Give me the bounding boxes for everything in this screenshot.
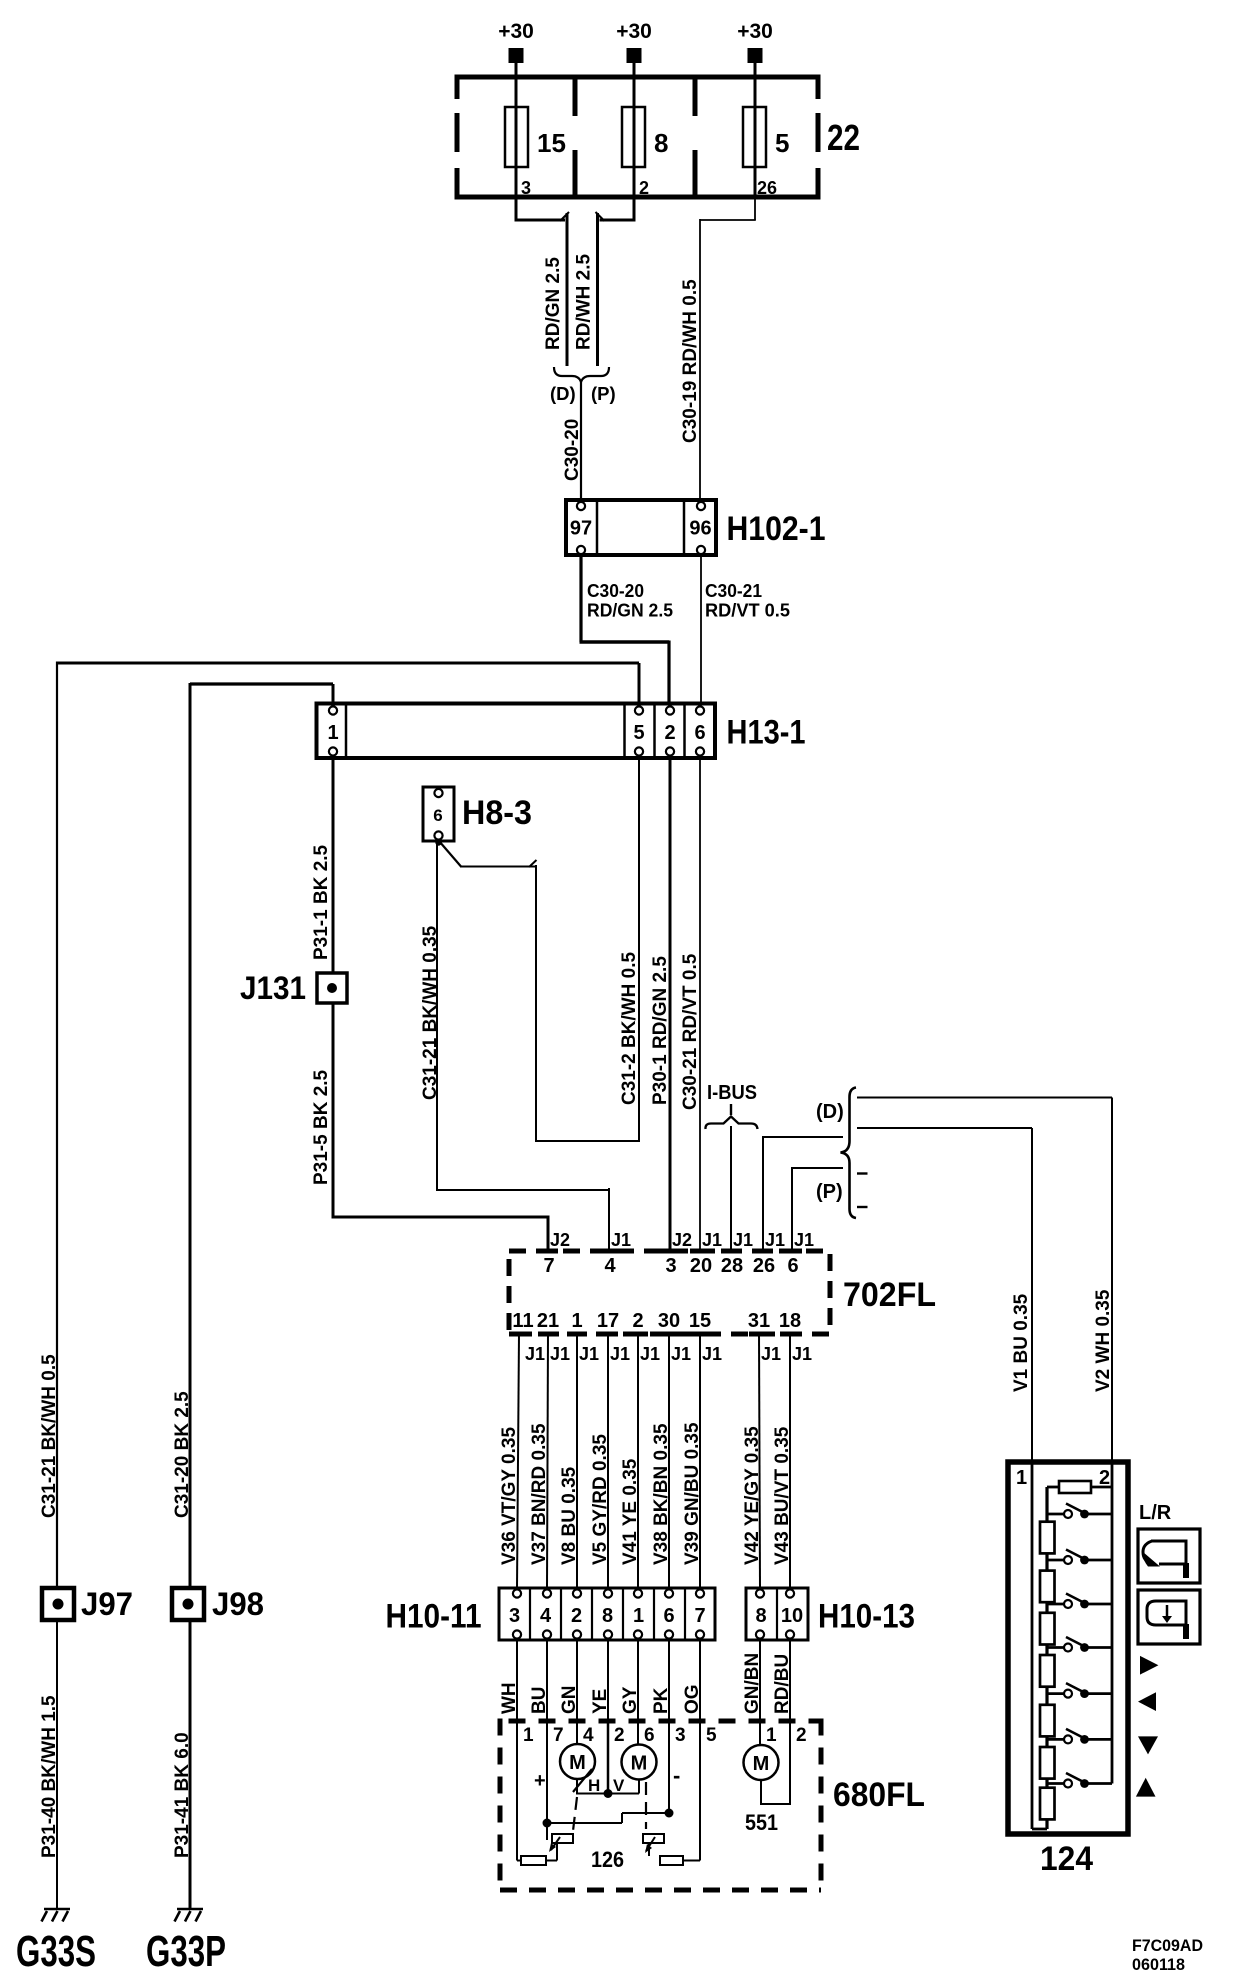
svg-text:PK: PK — [651, 1687, 672, 1714]
svg-text:C31-21 BK/WH 0.5: C31-21 BK/WH 0.5 — [39, 1354, 60, 1518]
wire fuse 8 feed — [633, 63, 636, 107]
svg-text:7: 7 — [694, 1605, 705, 1627]
I-BUS dashed leader — [730, 1104, 732, 1115]
svg-text:2: 2 — [632, 1310, 643, 1332]
I-BUS brace — [705, 1117, 757, 1130]
wire BU — [546, 1640, 548, 1721]
motor M (H) — [560, 1744, 595, 1779]
svg-text:26: 26 — [757, 178, 777, 198]
svg-text:15: 15 — [537, 128, 566, 158]
H10-11 pin 4 — [543, 1589, 551, 1597]
svg-text:YE: YE — [590, 1689, 611, 1714]
wire to motor H — [576, 1721, 578, 1744]
fuse 15 — [505, 107, 528, 167]
wire 702FL pin6 -> brace — [791, 1168, 793, 1251]
svg-text:8: 8 — [755, 1605, 766, 1627]
fuse 5 — [743, 107, 766, 167]
svg-text:GY: GY — [620, 1686, 641, 1714]
svg-text:15: 15 — [689, 1310, 711, 1332]
svg-text:J1: J1 — [702, 1344, 722, 1364]
svg-text:C30-20: C30-20 — [562, 419, 583, 481]
svg-text:1: 1 — [571, 1310, 582, 1332]
svg-text:P31-5 BK 2.5: P31-5 BK 2.5 — [311, 1069, 332, 1185]
wire I-BUS -> 702FL pin28 — [730, 1126, 732, 1251]
H10-11 pin 1 — [634, 1589, 642, 1597]
pot1 wiper box — [552, 1834, 573, 1843]
stub ticks — [857, 1172, 868, 1174]
triangle right — [1140, 1656, 1158, 1675]
wire motor551 loop — [760, 1780, 762, 1804]
chain resistor 4 — [1040, 1655, 1055, 1687]
wire YE to common — [607, 1721, 610, 1794]
svg-text:G33P: G33P — [146, 1927, 226, 1976]
wire V39 — [699, 1334, 701, 1588]
svg-text:V39 GN/BU 0.35: V39 GN/BU 0.35 — [682, 1422, 703, 1565]
fuse box divider 2 — [693, 77, 698, 197]
switch 2 — [1047, 1559, 1064, 1562]
switch unit 124 outline — [1008, 1462, 1128, 1834]
chain resistor 5 — [1040, 1705, 1055, 1737]
svg-text:(P): (P) — [591, 383, 616, 404]
svg-text:J1: J1 — [761, 1344, 781, 1364]
wire GN/BN — [759, 1640, 761, 1721]
svg-text:H10-13: H10-13 — [818, 1598, 915, 1636]
svg-text:V2 WH 0.35: V2 WH 0.35 — [1093, 1289, 1114, 1392]
svg-text:1: 1 — [327, 722, 338, 744]
wire through fuse 8 — [633, 107, 636, 197]
svg-text:H8-3: H8-3 — [462, 794, 532, 832]
switch 4 — [1047, 1646, 1064, 1649]
wire H8-3 -> 702FL pin4 — [436, 841, 438, 1190]
connector H10-11 — [499, 1588, 715, 1640]
svg-text:I-BUS: I-BUS — [707, 1082, 757, 1104]
svg-text:5: 5 — [775, 128, 789, 158]
svg-text:H: H — [588, 1776, 600, 1795]
svg-text:6: 6 — [433, 806, 442, 825]
wire motorH-motorV common — [576, 1779, 578, 1794]
svg-text:4: 4 — [604, 1255, 616, 1277]
svg-text:1: 1 — [766, 1725, 777, 1746]
svg-text:RD/WH 2.5: RD/WH 2.5 — [574, 254, 595, 351]
net BU-PK jog — [547, 1822, 622, 1824]
svg-text:J1: J1 — [702, 1230, 722, 1250]
wire PK to net — [668, 1721, 670, 1813]
svg-text:C30-19 RD/WH 0.5: C30-19 RD/WH 0.5 — [680, 279, 701, 443]
wire (D) -> V2 — [857, 1097, 1112, 1099]
702FL bottom pin stub x=548 — [538, 1332, 558, 1337]
svg-text:(P): (P) — [816, 1181, 843, 1203]
svg-text:J1: J1 — [733, 1230, 753, 1250]
svg-text:551: 551 — [745, 1810, 778, 1835]
wire WH — [516, 1640, 518, 1721]
wire fuse3->RD/GN — [515, 197, 518, 220]
svg-text:21: 21 — [537, 1310, 559, 1332]
wire node to J98 rail — [190, 682, 333, 685]
svg-text:V8 BU 0.35: V8 BU 0.35 — [559, 1466, 580, 1565]
svg-text:J1: J1 — [611, 1230, 631, 1250]
wire 702FL pin26 -> brace — [762, 1137, 764, 1251]
switch 7 — [1047, 1782, 1064, 1785]
svg-text:(D): (D) — [550, 383, 576, 404]
svg-text:J1: J1 — [765, 1230, 785, 1250]
motor V linkage dashes — [645, 1782, 647, 1829]
702FL bottom pin stub x=519 — [509, 1332, 529, 1337]
702FL top pin stub x=548 — [538, 1249, 558, 1254]
svg-text:J2: J2 — [550, 1230, 570, 1250]
wire through fuse 5 — [754, 107, 757, 197]
svg-text:J1: J1 — [525, 1344, 545, 1364]
svg-text:C30-21 RD/VT 0.5: C30-21 RD/VT 0.5 — [680, 953, 701, 1110]
wire V8 — [576, 1334, 578, 1588]
icon B lamp glyph — [1147, 1601, 1186, 1633]
svg-text:C31-2 BK/WH 0.5: C31-2 BK/WH 0.5 — [619, 951, 640, 1105]
702FL top pin stub x=731 — [721, 1249, 741, 1254]
pot2 wiper arrow — [646, 1837, 655, 1851]
wire PK — [668, 1640, 670, 1721]
merge tick — [560, 212, 569, 221]
702FL top pin stub x=763 — [753, 1249, 773, 1254]
svg-text:RD/GN 2.5: RD/GN 2.5 — [587, 601, 673, 621]
svg-text:+30: +30 — [616, 20, 652, 43]
svg-text:26: 26 — [753, 1255, 775, 1277]
svg-text:31: 31 — [748, 1310, 770, 1332]
connector H8-3 — [423, 787, 454, 841]
fuse 8 — [622, 107, 645, 167]
H10-13 pin 8 — [756, 1589, 764, 1597]
wire brace -> H102-1 pin97 — [580, 381, 582, 500]
svg-text:4: 4 — [583, 1725, 594, 1746]
svg-text:1: 1 — [523, 1725, 534, 1746]
wire OG to pot2 — [699, 1721, 701, 1861]
connector H102-1 — [566, 500, 716, 555]
svg-text:V38 BK/BN 0.35: V38 BK/BN 0.35 — [651, 1423, 672, 1565]
motor M (V) — [622, 1745, 657, 1780]
wire to motor 551 — [759, 1640, 761, 1745]
fuse box 22 outline — [455, 75, 821, 80]
wire OG — [699, 1640, 701, 1721]
svg-text:126: 126 — [591, 1847, 624, 1872]
svg-text:OG: OG — [682, 1684, 703, 1714]
svg-text:RD/GN 2.5: RD/GN 2.5 — [543, 257, 564, 350]
wire fuse 15 feed — [515, 63, 518, 107]
wire 97 -> H13-1 pin2 — [579, 555, 582, 642]
svg-text:P30-1 RD/GN 2.5: P30-1 RD/GN 2.5 — [650, 956, 671, 1105]
svg-text:060118: 060118 — [1132, 1955, 1185, 1974]
svg-text:5: 5 — [633, 722, 644, 744]
wire pot1 right leg — [546, 1860, 557, 1862]
wire J131 -> 702FL pin7 — [332, 1003, 335, 1217]
wire fuse 26 -> C30-19 — [754, 197, 756, 220]
icon A beam glyph — [1151, 1541, 1186, 1572]
ground symbol G33P — [177, 1908, 203, 1911]
wire 96 -> H13-1 pin6 — [700, 555, 702, 703]
svg-text:7: 7 — [543, 1255, 554, 1277]
svg-text:V41 YE 0.35: V41 YE 0.35 — [620, 1458, 641, 1565]
connector H10-13 — [746, 1588, 808, 1640]
brace (D)(P) under RD wires — [554, 367, 609, 382]
svg-text:680FL: 680FL — [833, 1776, 925, 1814]
svg-text:BU: BU — [529, 1687, 550, 1714]
svg-text:8: 8 — [602, 1605, 613, 1627]
svg-text:2: 2 — [571, 1605, 582, 1627]
svg-text:+30: +30 — [498, 20, 534, 43]
svg-text:124: 124 — [1040, 1840, 1093, 1878]
+30 terminal square — [627, 48, 642, 63]
svg-text:7: 7 — [553, 1725, 564, 1746]
svg-text:6: 6 — [787, 1255, 798, 1277]
H8-3 junction dot — [435, 839, 441, 845]
svg-text:22: 22 — [827, 117, 860, 158]
wire YE — [607, 1640, 609, 1721]
top resistor — [1047, 1486, 1059, 1489]
svg-text:30: 30 — [658, 1310, 680, 1332]
svg-text:2: 2 — [639, 178, 649, 198]
brace right (D)/(P) — [841, 1088, 857, 1219]
wire through fuse 15 — [515, 107, 518, 197]
svg-text:J1: J1 — [550, 1344, 570, 1364]
svg-text:20: 20 — [690, 1255, 712, 1277]
resistor chain — [1045, 1487, 1048, 1829]
wire V5 — [607, 1334, 609, 1588]
wire GN — [576, 1640, 578, 1721]
svg-text:M: M — [569, 1752, 586, 1774]
switch 1 — [1047, 1513, 1064, 1516]
wire RD/BU — [789, 1640, 791, 1721]
triangle up — [1136, 1778, 1156, 1797]
svg-text:V37 BN/RD 0.35: V37 BN/RD 0.35 — [529, 1423, 550, 1565]
svg-text:97: 97 — [570, 518, 592, 540]
svg-text:2: 2 — [664, 722, 675, 744]
fuse box divider 1 — [573, 77, 578, 197]
merge tick — [596, 212, 605, 221]
wire node to J97 rail — [57, 662, 639, 665]
702FL top pin stub x=609 — [599, 1249, 619, 1254]
svg-text:V36 VT/GY 0.35: V36 VT/GY 0.35 — [499, 1427, 520, 1565]
svg-text:5: 5 — [706, 1725, 717, 1746]
wire BU to wiper1 — [546, 1721, 548, 1840]
702FL bottom pin stub x=700 — [690, 1332, 710, 1337]
svg-text:V42 YE/GY 0.35: V42 YE/GY 0.35 — [742, 1426, 763, 1565]
wire J97 -> ground — [56, 1620, 58, 1909]
wire fuse2->RD/WH — [633, 197, 636, 220]
svg-text:6: 6 — [644, 1725, 655, 1746]
wire pot2 left leg — [648, 1843, 650, 1856]
icon box B — [1138, 1590, 1200, 1644]
svg-text:V: V — [613, 1776, 625, 1795]
svg-text:28: 28 — [721, 1255, 743, 1277]
H10-11 pin 8 — [604, 1589, 612, 1597]
702FL bottom pin stub x=608 — [598, 1332, 618, 1337]
motor H linkage slash — [573, 1769, 592, 1792]
svg-text:V1 BU 0.35: V1 BU 0.35 — [1011, 1293, 1032, 1392]
svg-text:4: 4 — [540, 1605, 552, 1627]
702FL top pin stub x=792 — [782, 1249, 802, 1254]
svg-text:17: 17 — [597, 1310, 619, 1332]
svg-text:F7C09AD: F7C09AD — [1132, 1936, 1203, 1955]
H10-11 pin 7 — [696, 1589, 704, 1597]
702FL bottom pin stub x=790 — [780, 1332, 800, 1337]
wire WH to pot1 — [516, 1721, 518, 1861]
ground symbol G33S — [44, 1908, 70, 1911]
triangle left — [1138, 1692, 1156, 1711]
triangle down — [1138, 1736, 1158, 1754]
svg-text:WH: WH — [499, 1682, 520, 1714]
wire V41 — [637, 1334, 639, 1588]
svg-text:V43 BU/VT 0.35: V43 BU/VT 0.35 — [772, 1426, 793, 1565]
wire to motor V — [637, 1721, 639, 1745]
svg-text:702FL: 702FL — [843, 1276, 936, 1314]
junction J97 — [42, 1588, 74, 1620]
svg-text:H13-1: H13-1 — [727, 714, 806, 752]
switch 6 — [1047, 1738, 1064, 1741]
wire GY — [637, 1640, 639, 1721]
connector H13-1 — [317, 704, 716, 759]
chain resistor 2 — [1040, 1571, 1055, 1603]
702FL bottom pin stub x=669 — [659, 1332, 679, 1337]
svg-text:C31-21 BK/WH 0.35: C31-21 BK/WH 0.35 — [420, 925, 441, 1100]
wire J98 -> ground — [189, 1620, 192, 1909]
icon box A — [1138, 1529, 1200, 1583]
wire H13 pin1 -> J131 — [332, 759, 335, 973]
702FL top pin stub x=670 — [660, 1249, 680, 1254]
702FL bottom pin stub x=638 — [628, 1332, 648, 1337]
702FL top pin stub x=700 — [690, 1249, 710, 1254]
svg-text:H10-11: H10-11 — [386, 1598, 482, 1636]
pot1 resistor 126a — [521, 1856, 546, 1865]
junction J98 — [172, 1588, 204, 1620]
wire (D) -> V1 — [857, 1127, 1032, 1129]
svg-text:J1: J1 — [640, 1344, 660, 1364]
wire H13 pin2 -> 702FL pin3 — [669, 759, 672, 1251]
svg-text:3: 3 — [521, 178, 531, 198]
svg-text:-: - — [673, 1763, 680, 1788]
svg-text:J2: J2 — [672, 1230, 692, 1250]
svg-text:(D): (D) — [816, 1101, 844, 1123]
svg-text:L/R: L/R — [1139, 1502, 1172, 1524]
motor M (551) — [744, 1745, 779, 1780]
svg-text:18: 18 — [779, 1310, 801, 1332]
chain resistor 1 — [1040, 1522, 1055, 1554]
+30 terminal square — [748, 48, 763, 63]
svg-text:J1: J1 — [792, 1344, 812, 1364]
svg-text:1: 1 — [633, 1605, 644, 1627]
icon B arrow down — [1166, 1605, 1169, 1617]
svg-text:P31-40 BK/WH 1.5: P31-40 BK/WH 1.5 — [39, 1695, 60, 1858]
svg-text:RD/VT 0.5: RD/VT 0.5 — [705, 601, 790, 621]
svg-text:C31-20 BK 2.5: C31-20 BK 2.5 — [172, 1391, 193, 1518]
svg-text:+30: +30 — [737, 20, 773, 43]
junction J131 — [317, 973, 347, 1003]
svg-text:10: 10 — [781, 1605, 803, 1627]
svg-text:C30-21: C30-21 — [705, 581, 762, 601]
svg-text:J131: J131 — [240, 970, 306, 1006]
svg-text:2: 2 — [796, 1725, 807, 1746]
702FL bottom pin stub x=759 — [749, 1332, 769, 1337]
svg-text:J1: J1 — [579, 1344, 599, 1364]
svg-text:M: M — [631, 1753, 648, 1775]
ECU 702FL outline — [509, 1251, 830, 1334]
svg-text:2: 2 — [614, 1725, 625, 1746]
svg-text:G33S: G33S — [16, 1927, 96, 1976]
svg-text:8: 8 — [654, 128, 668, 158]
svg-text:3: 3 — [665, 1255, 676, 1277]
chain resistor 6 — [1040, 1747, 1055, 1779]
H10-11 pin 6 — [665, 1589, 673, 1597]
H10-13 pin 10 — [786, 1589, 794, 1597]
svg-text:H102-1: H102-1 — [727, 510, 826, 548]
svg-text:P31-1 BK 2.5: P31-1 BK 2.5 — [311, 844, 332, 960]
wire fuse 5 feed — [754, 63, 757, 107]
702FL bottom pin stub x=577 — [567, 1332, 587, 1337]
svg-text:J97: J97 — [81, 1586, 133, 1622]
svg-text:GN: GN — [559, 1686, 580, 1715]
switch 3 — [1047, 1603, 1064, 1606]
actuator 680FL outline — [500, 1719, 821, 1724]
svg-text:C30-20: C30-20 — [587, 581, 644, 601]
svg-text:3: 3 — [509, 1605, 520, 1627]
wire V36 — [517, 1334, 519, 1588]
svg-text:+: + — [534, 1770, 546, 1792]
H10-11 pin 3 — [513, 1589, 521, 1597]
pot2 resistor 126b — [660, 1856, 683, 1865]
pot2 wiper box — [643, 1834, 664, 1843]
svg-text:J98: J98 — [212, 1586, 264, 1622]
svg-text:J1: J1 — [794, 1230, 814, 1250]
wire V42 — [759, 1334, 760, 1588]
svg-text:6: 6 — [694, 722, 705, 744]
svg-text:6: 6 — [663, 1605, 674, 1627]
+30 terminal square — [509, 48, 524, 63]
wire V37 — [547, 1334, 548, 1588]
svg-text:P31-41 BK 6.0: P31-41 BK 6.0 — [172, 1732, 193, 1858]
switch 5 — [1047, 1692, 1064, 1695]
svg-text:V5 GY/RD 0.35: V5 GY/RD 0.35 — [590, 1434, 611, 1565]
svg-text:11: 11 — [512, 1310, 533, 1332]
wire V1 inside — [1031, 1460, 1034, 1829]
wire V2 inside — [1111, 1460, 1114, 1784]
pot1 wiper arrow — [551, 1837, 560, 1850]
wire V38 — [668, 1334, 670, 1588]
H10-11 pin 2 — [573, 1589, 581, 1597]
svg-text:J1: J1 — [671, 1344, 691, 1364]
svg-text:96: 96 — [689, 518, 711, 540]
wire V43 — [789, 1334, 791, 1588]
chain resistor 7 — [1040, 1788, 1055, 1820]
svg-text:M: M — [753, 1753, 770, 1775]
svg-text:1: 1 — [1016, 1467, 1027, 1489]
wire H13 pin6 -> 702FL pin20 — [699, 759, 701, 1251]
chain resistor 3 — [1040, 1613, 1055, 1645]
svg-text:J1: J1 — [610, 1344, 630, 1364]
wire H8-3 -> C31-2 (to H13 pin5) — [439, 841, 461, 867]
svg-text:3: 3 — [675, 1725, 686, 1746]
